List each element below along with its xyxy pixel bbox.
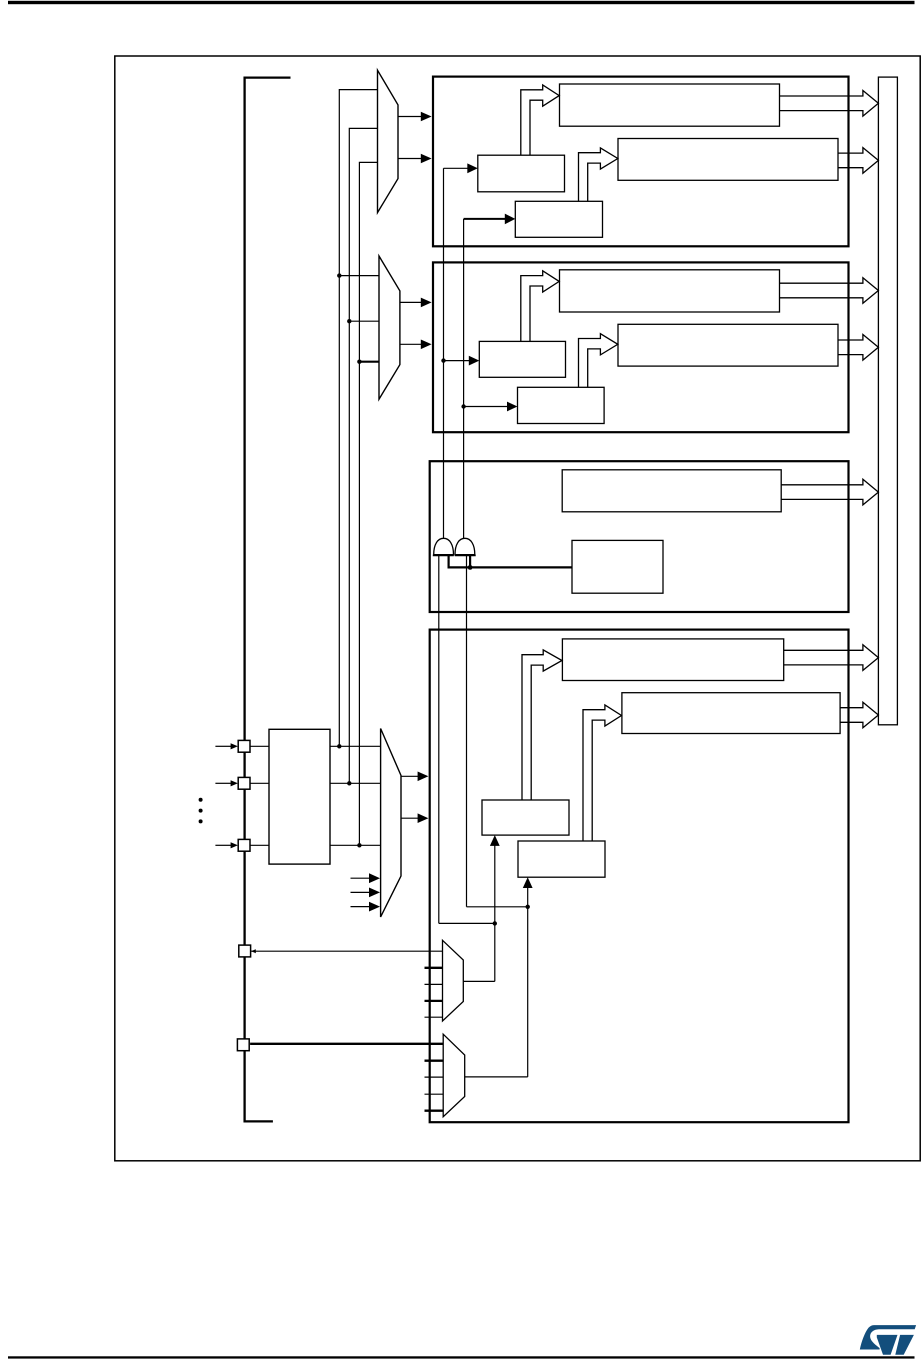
junction V3 tap [357, 360, 361, 364]
mux MB1 [443, 940, 464, 1021]
wire G2 output (thick) [469, 555, 471, 567]
wire MB2 output to riser B [465, 1076, 528, 1078]
CH1 thick wire+arrow into counter [464, 214, 516, 225]
wire U1 out 2 to mux M3 [330, 782, 381, 784]
wire vertical V1 up to mux M1 [339, 90, 377, 747]
MB1 input tick 2 [425, 983, 443, 985]
junction V3/U1 [357, 843, 361, 847]
CH4 prescaler box A [482, 800, 569, 835]
junction riser A [493, 921, 497, 925]
MB2 input tick 1 (thick) [425, 1060, 444, 1062]
CH4 capture register box [562, 639, 783, 681]
header rule [8, 1, 915, 4]
junction CH2 prescaler wire [441, 358, 445, 362]
CH1 hollow bent arrow prescaler to capture register [521, 85, 559, 155]
left bus line [245, 78, 291, 1122]
CH1 capture register box [560, 84, 780, 126]
channel block CH1 border [433, 77, 849, 247]
wire P4 to MB1 [250, 950, 442, 952]
mux M1 [378, 70, 399, 212]
mux M2 [379, 256, 400, 399]
CH2 prescaler box [479, 341, 565, 377]
mux MB2 [443, 1034, 465, 1117]
input filter box U1 [269, 729, 330, 864]
wire VG2 from CH1 corner down to gate G2 [463, 219, 465, 539]
channel block CH4 border [430, 630, 849, 1123]
wire VG1 from CH1 corner down to gate G1 [443, 168, 445, 539]
mux M1 output arrow 2 [398, 154, 432, 164]
wire U1 out 3 to mux M3 [330, 844, 381, 846]
junction G1/G2 outputs [468, 565, 473, 570]
mux M3 output arrow 1 [401, 772, 428, 782]
MB2 input tick 2 [425, 1076, 444, 1078]
MB1 input tick 3 (thick) [425, 1000, 443, 1002]
wire VG3 from gate G1 down to CH4 [438, 555, 440, 923]
input arrow into P1 [215, 743, 238, 749]
mux M3 select arrow 2 [351, 888, 381, 898]
mux M2 output arrow 1 [400, 298, 432, 308]
channel block CH2 border [433, 262, 849, 432]
wire P5 to MB2 (thick) [250, 1043, 443, 1045]
MB1 input tick 1 (thick) [425, 967, 443, 969]
CH4 compare register box [622, 693, 840, 734]
CH1 hollow bus arrow 1 [780, 91, 879, 117]
CH4 counter box B [518, 841, 605, 877]
mux M3 [381, 729, 401, 918]
wire G1 output to logic box (thick) [449, 555, 572, 567]
node pad P1 [238, 740, 250, 752]
junction V2/U1 [347, 781, 351, 785]
CH2 counter box [518, 387, 605, 423]
CH1 counter box [515, 201, 602, 237]
mux M2 output arrow 2 [400, 340, 432, 350]
CH4 hollow bent arrow A to capture register [522, 650, 562, 800]
CH1 hollow bus arrow 2 [838, 148, 878, 174]
CH1 compare register box [618, 139, 838, 181]
CH2 hollow bent arrow prescaler to capture register [521, 271, 559, 342]
wire V1 tap to mux M2 [339, 275, 379, 277]
ST logo [860, 1325, 916, 1355]
node pad P2 [238, 777, 250, 789]
node pad P3 [238, 839, 250, 851]
outer diagram frame [115, 56, 920, 1161]
wire V2 tap to mux M2 [349, 320, 379, 322]
CH1 prescaler box [478, 155, 565, 192]
wire VG3 horizontal into riser A [439, 922, 495, 924]
junction riser B [526, 905, 530, 909]
tiny arrow at P4 [251, 949, 256, 953]
mux M3 select arrow 3 [351, 902, 381, 912]
wire P1 to U1 [250, 745, 269, 747]
junction V1/U1 [337, 744, 341, 748]
ellipsis dots [199, 798, 203, 824]
CH2 wire+arrow into prescaler [444, 356, 480, 366]
CH2 capture register box [560, 270, 780, 312]
wire P3 to U1 [250, 844, 269, 846]
CH4 hollow bus arrow 1 [784, 645, 879, 671]
node pad P5 [237, 1039, 249, 1051]
CH2 hollow bent arrow counter to compare register [579, 334, 618, 388]
input arrow into P3 [215, 842, 238, 848]
CH4 hollow bus arrow 2 [840, 702, 878, 728]
CH3 logic box [572, 540, 663, 593]
junction CH2 counter wire [461, 404, 465, 408]
riser B wire with up arrow into box B [523, 877, 533, 1077]
footer rule [8, 1356, 915, 1358]
wire VG4 horizontal into riser B [467, 906, 528, 908]
CH4 hollow bent arrow B to compare register [583, 705, 622, 841]
mux M1 output arrow 1 [398, 112, 432, 122]
wire vertical V2 up to mux M1 [349, 128, 377, 783]
gate G1 [433, 538, 454, 555]
input arrow into P2 [215, 780, 238, 786]
block CH3 border [430, 461, 849, 612]
CH3 hollow bus arrow [781, 479, 878, 505]
wire U1 out 1 to mux M3 [330, 745, 381, 747]
CH3 register box [562, 470, 781, 512]
wire vertical V3 up to mux M1 [359, 162, 377, 845]
MB2 input tick 3 [425, 1093, 444, 1095]
CH2 compare register box [618, 324, 838, 366]
node pad P4 [239, 945, 251, 957]
mux M3 output arrow 2 [401, 813, 428, 823]
CH2 hollow bus arrow 2 [838, 335, 878, 361]
CH1 wire+arrow into prescaler [444, 163, 478, 173]
mux M3 select arrow 1 [351, 873, 381, 883]
wire VG4 from gate G2 down to CH4 [466, 555, 468, 906]
CH1 hollow bent arrow counter to compare register [579, 148, 618, 201]
right output bus bar [878, 77, 897, 725]
gate G2 [455, 538, 476, 555]
MB2 input tick 4 (thick) [425, 1110, 444, 1112]
wire P2 to U1 [250, 782, 269, 784]
junction V2 tap [347, 319, 351, 323]
CH2 hollow bus arrow 1 [780, 278, 879, 304]
junction V1 tap [337, 273, 341, 277]
riser A wire with up arrow into box A [490, 835, 500, 981]
wire MB1 output to riser A [463, 980, 495, 982]
CH2 wire+arrow into counter [464, 402, 518, 412]
wire V3 tap to mux M2 (thick) [359, 361, 379, 363]
MB1 input tick 4 [425, 1016, 443, 1018]
